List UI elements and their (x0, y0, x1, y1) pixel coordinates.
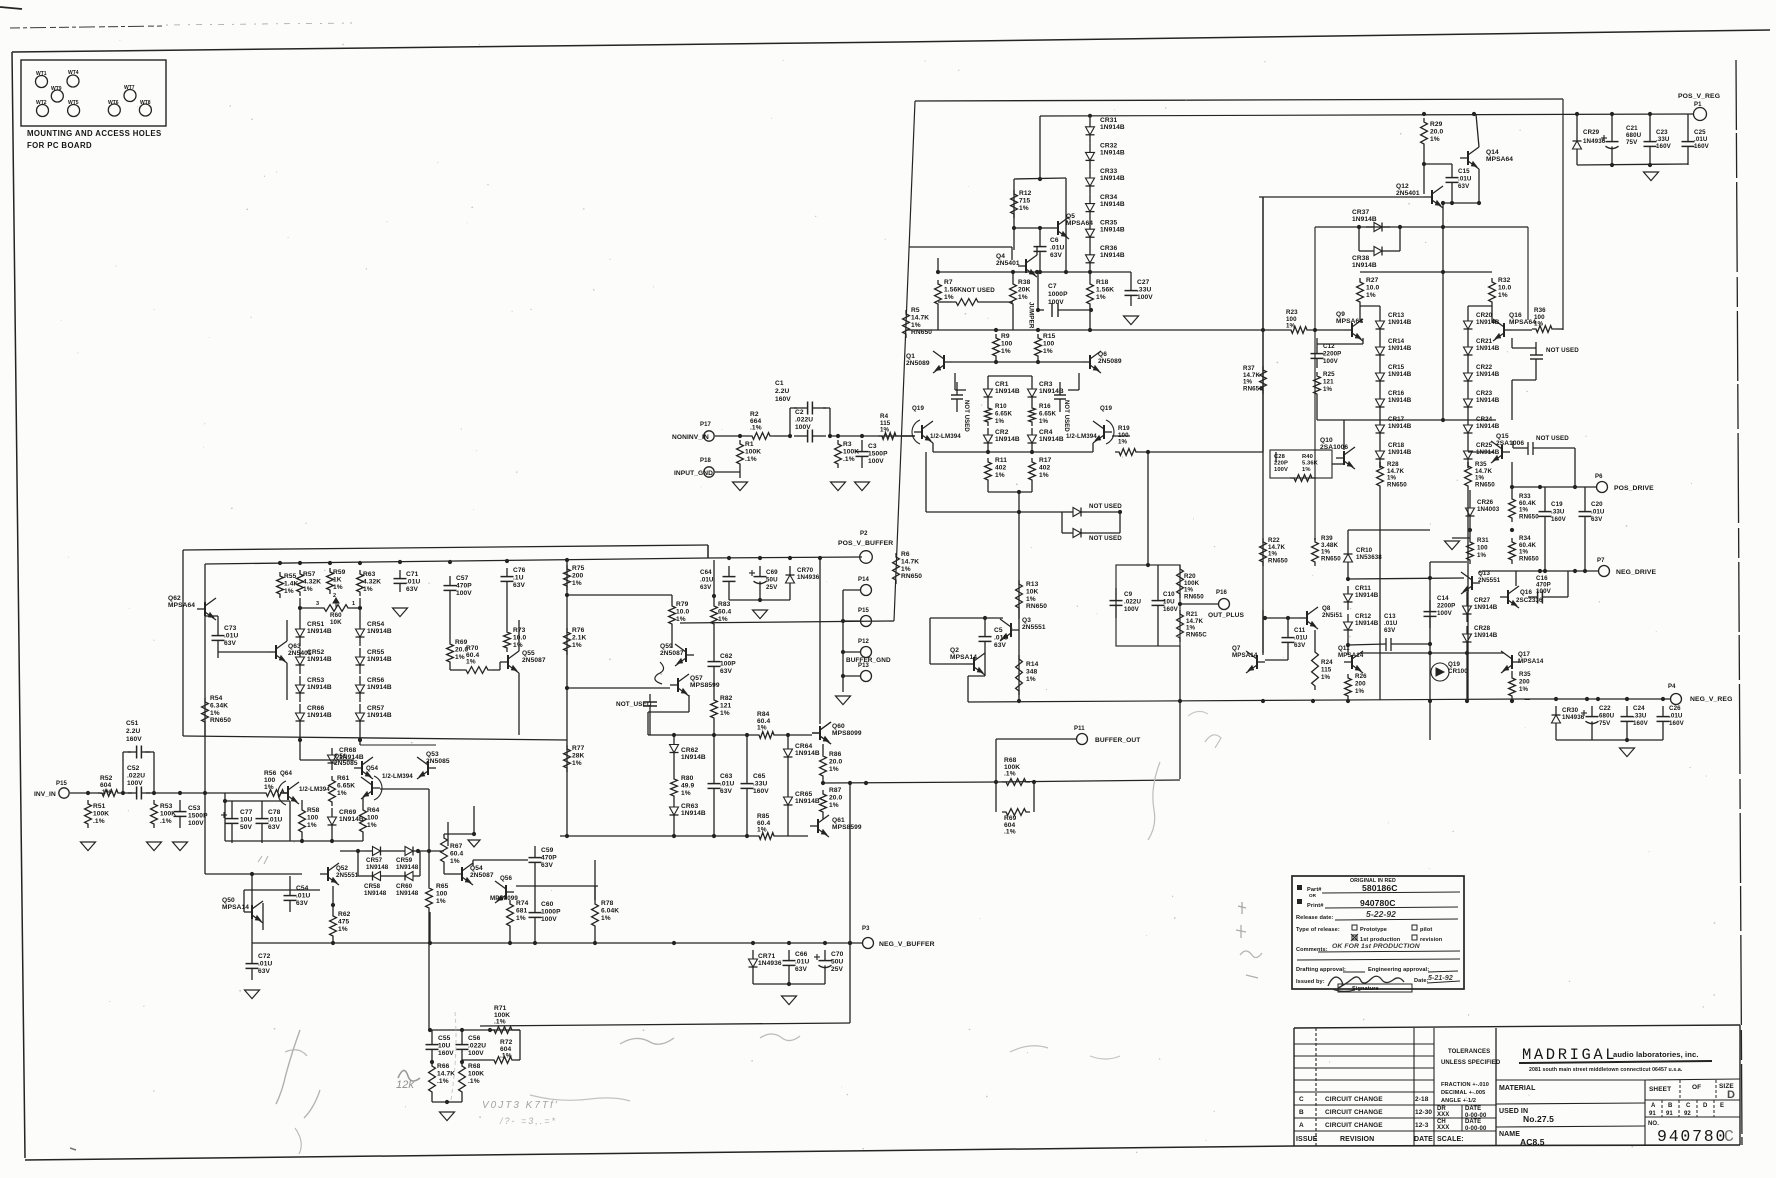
svg-text:1%: 1% (303, 586, 313, 593)
svg-text:R78: R78 (601, 900, 614, 907)
svg-text:10.0: 10.0 (676, 608, 689, 615)
svg-text:Q53: Q53 (426, 751, 439, 758)
svg-text:63V: 63V (1050, 252, 1063, 259)
svg-text:6.04K: 6.04K (601, 907, 619, 914)
svg-text:1%: 1% (718, 616, 728, 623)
svg-text:1%: 1% (601, 915, 611, 922)
svg-text:C15: C15 (1458, 168, 1470, 175)
svg-text:63V: 63V (720, 788, 733, 795)
svg-text:R16: R16 (1039, 403, 1051, 410)
svg-text:C66: C66 (795, 951, 808, 958)
svg-text:20K: 20K (1018, 286, 1031, 293)
svg-text:160V: 160V (753, 788, 769, 795)
svg-text:680U: 680U (1599, 712, 1615, 719)
svg-text:0-00-00: 0-00-00 (1465, 1126, 1487, 1132)
svg-text:1: 1 (352, 601, 355, 607)
svg-text:Q15: Q15 (1496, 433, 1509, 440)
svg-text:MPSA14: MPSA14 (1338, 652, 1364, 659)
svg-text:P2: P2 (860, 531, 868, 537)
svg-text:475: 475 (338, 918, 350, 925)
svg-text:1%: 1% (995, 418, 1005, 425)
svg-text:115: 115 (1321, 666, 1332, 673)
svg-text:RN650: RN650 (1184, 593, 1204, 600)
svg-text:Q19: Q19 (912, 405, 924, 412)
svg-text:CR34: CR34 (1100, 194, 1117, 201)
svg-text:1%: 1% (513, 642, 523, 649)
svg-text:R76: R76 (572, 627, 585, 634)
svg-text:.022U: .022U (795, 417, 813, 424)
svg-text:.01U: .01U (1669, 712, 1683, 719)
svg-text:DATE: DATE (1465, 1119, 1481, 1125)
svg-text:100V: 100V (1536, 588, 1552, 595)
svg-text:CR3: CR3 (1039, 381, 1053, 388)
svg-text:2N5085: 2N5085 (334, 760, 358, 767)
svg-text:C77: C77 (240, 809, 253, 816)
svg-text:63V: 63V (1458, 183, 1470, 190)
svg-text:160V: 160V (126, 736, 142, 743)
svg-text:1N914B: 1N914B (1352, 262, 1377, 269)
svg-text:14.7K: 14.7K (911, 314, 929, 321)
svg-text:1K: 1K (333, 576, 342, 583)
svg-text:WT6: WT6 (108, 100, 119, 106)
svg-text:.1%: .1% (500, 1053, 512, 1060)
svg-text:Release date:: Release date: (1296, 915, 1333, 921)
svg-text:C23: C23 (1656, 129, 1668, 136)
svg-text:1%: 1% (1477, 552, 1487, 559)
svg-text:1%: 1% (307, 822, 317, 829)
svg-text:6.34K: 6.34K (210, 702, 228, 709)
svg-text:C55: C55 (438, 1035, 451, 1042)
svg-text:CR27: CR27 (1474, 597, 1491, 604)
svg-text:1N914B: 1N914B (1100, 201, 1125, 208)
svg-text:R66: R66 (437, 1063, 450, 1070)
svg-text:C: C (1686, 1103, 1691, 1109)
svg-text:100V: 100V (1124, 606, 1140, 613)
svg-text:160V: 160V (1551, 516, 1567, 523)
svg-text:AC8.5: AC8.5 (1520, 1137, 1545, 1147)
svg-text:CR30: CR30 (1562, 707, 1579, 714)
svg-text:CR36: CR36 (1100, 245, 1117, 252)
svg-text:1N914B: 1N914B (1352, 216, 1377, 223)
svg-text:CR71: CR71 (758, 953, 775, 960)
svg-text:20.0: 20.0 (829, 794, 842, 801)
svg-text:680U: 680U (1626, 132, 1642, 139)
svg-text:CR18: CR18 (1388, 442, 1405, 449)
svg-text:CR15: CR15 (1388, 364, 1405, 371)
svg-text:14.7K: 14.7K (437, 1070, 455, 1077)
svg-text:1%: 1% (210, 710, 220, 717)
svg-text:12-3: 12-3 (1415, 1122, 1429, 1129)
svg-text:CR2: CR2 (995, 429, 1009, 436)
svg-text:Q63: Q63 (288, 643, 301, 650)
svg-text:CR62: CR62 (681, 747, 698, 754)
svg-text:1N53638: 1N53638 (1356, 554, 1382, 561)
svg-text:C73: C73 (224, 625, 237, 632)
svg-text:R82: R82 (720, 695, 733, 702)
svg-text:C14: C14 (1437, 595, 1449, 602)
svg-text:2.2U: 2.2U (126, 728, 140, 735)
svg-text:1%: 1% (995, 472, 1005, 479)
svg-text:CR20: CR20 (1476, 312, 1493, 319)
svg-text:MPSA14: MPSA14 (1518, 658, 1544, 665)
svg-text:R58: R58 (307, 807, 320, 814)
svg-text:C51: C51 (126, 720, 139, 727)
svg-text:470P: 470P (456, 582, 472, 589)
svg-text:5.36K: 5.36K (1302, 460, 1319, 466)
svg-text:RN650: RN650 (1519, 513, 1539, 520)
svg-text:1%: 1% (1039, 472, 1049, 479)
svg-text:100: 100 (1043, 340, 1055, 347)
svg-text:2N5551: 2N5551 (1478, 577, 1501, 584)
svg-text:P7: P7 (1597, 558, 1605, 564)
svg-text:.01U: .01U (296, 892, 310, 899)
svg-text:C62: C62 (720, 653, 733, 660)
svg-text:B: B (1668, 1103, 1673, 1109)
svg-text:.01U: .01U (1294, 634, 1308, 641)
svg-text:1N914B: 1N914B (367, 684, 392, 691)
svg-text:RN650: RN650 (1387, 481, 1407, 488)
svg-text:200: 200 (572, 572, 584, 579)
svg-text:50U: 50U (831, 958, 844, 965)
svg-text:RN650: RN650 (1268, 557, 1288, 564)
svg-text:R52: R52 (100, 775, 113, 782)
svg-text:CR64: CR64 (795, 743, 812, 750)
svg-text:.1%: .1% (93, 818, 105, 825)
svg-text:1%: 1% (572, 760, 582, 767)
svg-text:R18: R18 (1096, 279, 1109, 286)
svg-text:REVISION: REVISION (1340, 1136, 1374, 1143)
svg-text:25V: 25V (766, 584, 778, 591)
svg-text:MATERIAL: MATERIAL (1499, 1085, 1536, 1092)
svg-text:CR58: CR58 (364, 883, 381, 890)
svg-text:1%: 1% (1355, 688, 1365, 695)
svg-text:R35: R35 (1519, 671, 1531, 678)
svg-text:C9: C9 (1124, 591, 1133, 598)
svg-text:Issued by:: Issued by: (1296, 979, 1325, 985)
svg-text:2N5089: 2N5089 (906, 360, 930, 367)
svg-text:10.0: 10.0 (513, 634, 526, 641)
svg-text:NEG_V_BUFFER: NEG_V_BUFFER (879, 941, 935, 948)
svg-text:Q19: Q19 (1100, 405, 1112, 412)
svg-text:CR37: CR37 (1352, 209, 1369, 216)
svg-text:CR68: CR68 (339, 747, 356, 754)
svg-text:R10: R10 (995, 403, 1007, 410)
svg-text:R65: R65 (436, 883, 449, 890)
svg-text:R6: R6 (901, 551, 910, 558)
svg-text:1%: 1% (1026, 596, 1036, 603)
svg-text:.01U: .01U (720, 780, 734, 787)
svg-text:2N5087: 2N5087 (522, 657, 546, 664)
svg-text:RN65C: RN65C (1186, 631, 1207, 638)
svg-text:100V: 100V (188, 820, 204, 827)
svg-text:.33U: .33U (1656, 136, 1670, 143)
svg-text:6.65K: 6.65K (995, 410, 1012, 417)
svg-text:C54: C54 (296, 885, 309, 892)
svg-text:1%: 1% (1302, 467, 1311, 473)
svg-text:1N914B: 1N914B (307, 628, 332, 635)
svg-text:C28: C28 (1274, 454, 1286, 460)
svg-text:1%: 1% (1001, 348, 1011, 355)
svg-text:2N5089: 2N5089 (1098, 358, 1122, 365)
svg-text:1%: 1% (284, 588, 294, 595)
svg-text:.1%: .1% (750, 425, 762, 432)
svg-text:C21: C21 (1626, 125, 1638, 132)
svg-text:C: C (1299, 1096, 1304, 1103)
svg-text:SCALE:: SCALE: (1437, 1136, 1464, 1143)
svg-text:63V: 63V (1591, 516, 1603, 523)
svg-text:1%: 1% (264, 784, 274, 791)
svg-text:2-18: 2-18 (1415, 1096, 1429, 1103)
svg-text:MPSA64: MPSA64 (1486, 156, 1513, 163)
svg-text:R54: R54 (210, 695, 223, 702)
svg-text:E: E (1720, 1103, 1724, 1109)
svg-text:CR65: CR65 (795, 791, 812, 798)
svg-text:MPS8099: MPS8099 (832, 730, 862, 737)
svg-text:1N914B: 1N914B (681, 810, 706, 817)
svg-text:Q5: Q5 (1066, 213, 1075, 220)
svg-text:WT9: WT9 (51, 86, 62, 92)
svg-text:A: A (1299, 1122, 1304, 1129)
svg-text:1N4003: 1N4003 (1477, 506, 1500, 513)
svg-text:1%: 1% (338, 926, 348, 933)
svg-text:2081 south main street middlet: 2081 south main street middletown connec… (1529, 1067, 1683, 1073)
svg-text:2200P: 2200P (1437, 602, 1455, 609)
svg-text:CR57: CR57 (366, 857, 383, 864)
svg-text:NOT USED: NOT USED (963, 400, 969, 432)
svg-text:CR51: CR51 (307, 621, 324, 628)
svg-text:1N914B: 1N914B (1388, 423, 1412, 430)
svg-text:C26: C26 (1669, 705, 1681, 712)
svg-text:R56: R56 (264, 770, 277, 777)
svg-text:.022U: .022U (1124, 598, 1141, 605)
svg-text:MPS8599: MPS8599 (690, 682, 720, 689)
svg-text:1%: 1% (1498, 292, 1508, 299)
svg-text:R74: R74 (516, 900, 529, 907)
svg-text:Q60: Q60 (832, 723, 845, 730)
svg-text:JUMPER: JUMPER (1028, 302, 1035, 329)
svg-text:1N914B: 1N914B (1474, 604, 1498, 611)
svg-text:160V: 160V (1633, 720, 1649, 727)
svg-text:1N914B: 1N914B (795, 798, 820, 805)
svg-text:1%: 1% (911, 322, 921, 329)
svg-text:Q50: Q50 (222, 897, 235, 904)
svg-text:1N914B: 1N914B (1476, 319, 1500, 326)
svg-text:.01U: .01U (1591, 508, 1605, 515)
svg-text:FRACTION +-.010: FRACTION +-.010 (1441, 1082, 1489, 1088)
svg-text:C56: C56 (468, 1035, 481, 1042)
svg-text:CR10: CR10 (1356, 547, 1373, 554)
svg-text:100K: 100K (468, 1070, 484, 1077)
svg-text:348: 348 (1026, 668, 1038, 675)
svg-text:100V: 100V (1437, 610, 1453, 617)
svg-text:50V: 50V (240, 824, 253, 831)
svg-text:1%: 1% (1118, 439, 1128, 446)
svg-text:1N914B: 1N914B (1355, 592, 1379, 599)
svg-text:1%: 1% (829, 766, 839, 773)
svg-text:1000P: 1000P (541, 908, 561, 915)
svg-text:RN650: RN650 (1475, 481, 1495, 488)
svg-text:.33U: .33U (753, 780, 767, 787)
svg-text:10.0: 10.0 (1366, 284, 1379, 291)
svg-text:CR70: CR70 (797, 567, 814, 574)
svg-text:2N5085: 2N5085 (426, 758, 450, 765)
svg-text:Engineering approval:: Engineering approval: (1368, 967, 1429, 973)
svg-text:CR33: CR33 (1100, 168, 1117, 175)
svg-text:CR32: CR32 (1100, 143, 1117, 150)
svg-text:P3: P3 (862, 926, 870, 932)
svg-text:WT7: WT7 (124, 85, 135, 91)
svg-text:R9: R9 (1001, 333, 1010, 340)
svg-text:Q61: Q61 (832, 817, 845, 824)
svg-text:CR52: CR52 (307, 649, 324, 656)
svg-text:1%: 1% (676, 616, 686, 623)
svg-text:63V: 63V (795, 966, 808, 973)
svg-text:C53: C53 (188, 805, 201, 812)
svg-text:1%: 1% (572, 642, 582, 649)
svg-text:Q64: Q64 (280, 770, 292, 777)
svg-text:1N914B: 1N914B (1388, 397, 1412, 404)
svg-text:OK FOR 1st PRODUCTION: OK FOR 1st PRODUCTION (1332, 943, 1421, 950)
svg-text:1N914B: 1N914B (367, 628, 392, 635)
svg-text:160V: 160V (1163, 606, 1179, 613)
svg-text:1N914B: 1N914B (1100, 150, 1125, 157)
svg-text:CR100: CR100 (1448, 668, 1468, 675)
svg-text:C22: C22 (1599, 705, 1611, 712)
svg-text:P15: P15 (858, 608, 870, 614)
svg-text:Q59: Q59 (660, 643, 673, 650)
svg-text:INPUT_GND: INPUT_GND (674, 470, 713, 477)
svg-text:1%: 1% (455, 654, 465, 661)
svg-text:100V: 100V (541, 916, 557, 923)
svg-text:Q14: Q14 (1486, 149, 1499, 156)
svg-text:100: 100 (367, 814, 379, 821)
svg-text:NEG_V_REG: NEG_V_REG (1690, 696, 1732, 703)
svg-text:R59: R59 (333, 569, 346, 576)
svg-text:R57: R57 (303, 571, 316, 578)
svg-text:1/2-LM394: 1/2-LM394 (299, 786, 330, 793)
svg-text:.33U: .33U (1551, 508, 1565, 515)
svg-text:R55: R55 (284, 573, 297, 580)
svg-text:1N9148: 1N9148 (396, 864, 419, 871)
svg-text:OF: OF (1692, 1084, 1701, 1091)
svg-text:P16: P16 (1216, 590, 1228, 596)
svg-text:P4: P4 (1668, 684, 1676, 690)
svg-text:2N5087: 2N5087 (470, 872, 494, 879)
svg-text:100V: 100V (127, 780, 143, 787)
svg-text:P11: P11 (1074, 726, 1085, 732)
svg-text:SHEET: SHEET (1649, 1086, 1671, 1093)
svg-text:OUT_PLUS: OUT_PLUS (1208, 612, 1244, 619)
svg-text:C24: C24 (1633, 705, 1645, 712)
svg-text:940780: 940780 (1657, 1127, 1727, 1146)
svg-text:NOT USED: NOT USED (1536, 435, 1569, 442)
svg-text:.33U: .33U (1633, 712, 1647, 719)
svg-text:.33U: .33U (1137, 286, 1151, 293)
svg-text:1%: 1% (1018, 294, 1028, 301)
svg-text:CR26: CR26 (1477, 499, 1494, 506)
svg-text:.1%: .1% (468, 1078, 480, 1085)
svg-text:1%: 1% (1026, 676, 1036, 683)
svg-text:C52: C52 (127, 765, 140, 772)
svg-text:RN650: RN650 (1519, 555, 1539, 562)
svg-text:.01U: .01U (994, 634, 1008, 641)
svg-text:MPSA64: MPSA64 (168, 602, 195, 609)
svg-text:CR28: CR28 (1474, 625, 1491, 632)
svg-text:CR54: CR54 (367, 621, 384, 628)
svg-text:Q9: Q9 (1336, 311, 1345, 318)
svg-text:Q16: Q16 (1520, 589, 1532, 596)
svg-text:1%: 1% (1534, 321, 1544, 328)
svg-text:WT8: WT8 (140, 100, 151, 106)
svg-text:RN650: RN650 (1026, 603, 1047, 610)
svg-text:2: 2 (333, 593, 336, 599)
svg-text:Q1: Q1 (906, 353, 915, 360)
svg-text:CIRCUIT CHANGE: CIRCUIT CHANGE (1325, 1109, 1383, 1116)
svg-text:Q16: Q16 (1509, 312, 1522, 319)
svg-text:CR1: CR1 (995, 381, 1009, 388)
svg-text:P18: P18 (700, 458, 712, 464)
svg-text:R51: R51 (93, 803, 106, 810)
svg-text:50U: 50U (766, 576, 778, 583)
svg-text:NOT USED: NOT USED (962, 287, 995, 294)
svg-text:1%: 1% (1019, 205, 1029, 212)
svg-text:revision: revision (1420, 937, 1443, 943)
svg-text:121: 121 (720, 702, 732, 709)
svg-text:R26: R26 (1355, 673, 1367, 680)
svg-text:MPSA14: MPSA14 (222, 904, 249, 911)
svg-text:Q4: Q4 (996, 253, 1005, 260)
svg-text:1%: 1% (333, 584, 343, 591)
svg-text:R27: R27 (1366, 277, 1379, 284)
svg-text:1%: 1% (1039, 418, 1049, 425)
svg-text:63V: 63V (258, 968, 271, 975)
svg-text:MPSA64: MPSA64 (1066, 220, 1093, 227)
svg-text:P15: P15 (56, 781, 68, 787)
svg-text:1N914B: 1N914B (1388, 345, 1412, 352)
svg-text:FOR PC BOARD: FOR PC BOARD (27, 141, 92, 150)
svg-text:RN650: RN650 (210, 717, 231, 724)
svg-text:NONINV_IN: NONINV_IN (672, 434, 709, 441)
svg-text:R25: R25 (1323, 371, 1335, 378)
svg-text:604: 604 (100, 782, 112, 789)
svg-text:.01U: .01U (1458, 175, 1472, 182)
svg-text:.1%: .1% (494, 1019, 506, 1026)
svg-text:160V: 160V (438, 1050, 454, 1057)
svg-text:1/2-LM394: 1/2-LM394 (382, 773, 413, 780)
svg-text:63V: 63V (406, 586, 419, 593)
svg-text:3: 3 (316, 601, 319, 607)
svg-text:C6: C6 (1050, 237, 1059, 244)
svg-text:C3: C3 (868, 443, 877, 450)
svg-text:1N914B: 1N914B (1388, 449, 1412, 456)
svg-text:1%: 1% (681, 790, 691, 797)
svg-text:XXX: XXX (1437, 1125, 1449, 1131)
svg-text:200: 200 (1519, 678, 1530, 685)
svg-text:1N4936: 1N4936 (1562, 714, 1585, 721)
svg-text:1%: 1% (1430, 136, 1440, 143)
svg-text:Drafting approval:: Drafting approval: (1296, 967, 1346, 973)
svg-text:NOT USED: NOT USED (1089, 503, 1122, 510)
svg-text:14.7K: 14.7K (901, 558, 919, 565)
svg-text:Q7: Q7 (1232, 645, 1241, 652)
svg-text:Q56: Q56 (500, 875, 512, 882)
svg-text:10U: 10U (438, 1042, 451, 1049)
svg-text:/?- =3,.=*: /?- =3,.=* (499, 1116, 557, 1126)
svg-text:CR35: CR35 (1100, 219, 1117, 226)
svg-text:1000P: 1000P (1048, 291, 1068, 298)
svg-text:R83: R83 (718, 601, 731, 608)
svg-text:6.65K: 6.65K (337, 782, 355, 789)
